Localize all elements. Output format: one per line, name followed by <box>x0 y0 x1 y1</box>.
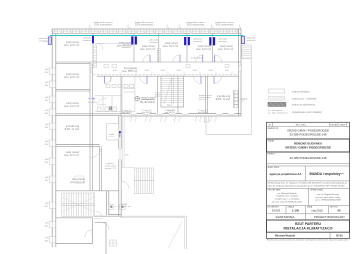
wall top exterior <box>52 29 241 33</box>
svg-text:OBIEKT: OBIEKT <box>268 153 276 155</box>
svg-text:wpis do ewidencji dzialalnosci: wpis do ewidencji dzialalnosci gospodarc… <box>268 185 345 188</box>
svg-text:UKLAD: UKLAD <box>331 123 338 126</box>
svg-text:jednostka: jednostka <box>38 37 48 40</box>
svg-text:OPRACOWAL: OPRACOWAL <box>310 189 324 192</box>
svg-text:INSTALACJA KLIMATYZACJI: INSTALACJA KLIMATYZACJI <box>284 227 333 231</box>
svg-text:IS-01: IS-01 <box>336 234 343 238</box>
svg-text:17 x 17,6: 17 x 17,6 <box>167 110 175 112</box>
svg-text:pokoj biurowy: pokoj biurowy <box>119 42 133 45</box>
room labels <box>64 41 234 208</box>
svg-text:otw. 90/210: otw. 90/210 <box>198 111 208 114</box>
svg-text:maj 2010: maj 2010 <box>311 209 323 213</box>
svg-text:URZEDU GMINY PODEGRODZIE: URZEDU GMINY PODEGRODZIE <box>285 146 331 150</box>
svg-text:jednostka: jednostka <box>218 37 228 40</box>
svg-text:pokoj: pokoj <box>66 126 80 128</box>
skylight box <box>75 176 83 183</box>
svg-text:pokoj biurowy: pokoj biurowy <box>198 45 212 48</box>
legend item 3 <box>268 102 286 106</box>
svg-text:pow. 24,5 m2: pow. 24,5 m2 <box>64 45 80 47</box>
south room notes <box>199 94 248 103</box>
drain line lavender <box>95 43 132 45</box>
wing small room box <box>107 124 119 141</box>
toilet partitions and fixtures <box>95 76 158 113</box>
fan coil pair 2 <box>184 37 186 45</box>
svg-text:poz. 2.4: poz. 2.4 <box>199 99 206 101</box>
fixtures right room <box>234 91 244 108</box>
agencja row <box>270 172 344 176</box>
corridor small marks <box>104 65 229 68</box>
fan coil pair 1 <box>131 36 133 44</box>
right wall fixture <box>239 66 242 72</box>
unit mark wing <box>119 131 121 133</box>
wing east wall window gap <box>119 149 122 161</box>
svg-text:winda: winda <box>109 134 115 136</box>
cyan pipe line <box>50 35 243 37</box>
svg-text:pow. 3 m2: pow. 3 m2 <box>122 206 132 208</box>
svg-text:projektowane sieci instalacji: projektowane sieci instalacji <box>292 111 322 114</box>
svg-text:pow. 18,2 m2: pow. 18,2 m2 <box>70 182 86 184</box>
windows bottom wall <box>130 114 235 115</box>
svg-text:SANITARNA: SANITARNA <box>276 215 295 219</box>
riser shaft mid <box>157 49 160 62</box>
stairs central <box>161 76 184 107</box>
title block frame <box>267 122 350 238</box>
svg-text:REJ. ZLEC.: REJ. ZLEC. <box>296 124 307 126</box>
svg-text:PROJEKTANT: PROJEKTANT <box>268 189 282 192</box>
svg-text:5,1 m2: 5,1 m2 <box>140 102 157 104</box>
dimension labels top <box>93 21 235 26</box>
svg-text:pow. 24,5 m2: pow. 24,5 m2 <box>218 49 234 51</box>
svg-text:otw. 90/210: otw. 90/210 <box>142 111 152 114</box>
riser shaft left <box>93 44 103 68</box>
svg-text:sala narad: sala narad <box>66 151 80 154</box>
svg-text:pokoj biurowy: pokoj biurowy <box>142 45 156 48</box>
svg-text:BIANDA i wspolnicysp.j: BIANDA i wspolnicysp.j <box>310 172 344 176</box>
svg-text:PROJEKT BUDOWLANY: PROJEKT BUDOWLANY <box>314 215 345 219</box>
svg-text:pow. 24,5 m2: pow. 24,5 m2 <box>140 49 156 51</box>
windows left wall <box>50 68 56 243</box>
vent ticks below wall <box>130 116 216 122</box>
svg-text:18 m2: 18 m2 <box>215 99 232 101</box>
svg-text:wewnetrzna: wewnetrzna <box>193 40 202 43</box>
svg-text:pokoj biurowy: pokoj biurowy <box>165 42 179 45</box>
svg-text:komunikacja: komunikacja <box>124 68 138 70</box>
svg-text:wewnetrzna: wewnetrzna <box>83 39 92 42</box>
svg-text:pow. 24,5 m2: pow. 24,5 m2 <box>64 77 80 79</box>
wing walls <box>56 116 121 254</box>
walkway dotted lines <box>122 116 134 168</box>
corridor tick marks <box>120 72 232 75</box>
svg-text:upr. proj. nuup. Nr 2345/Podk.: upr. proj. nuup. Nr 2345/Podk./2002 <box>272 200 302 203</box>
fan coil pair 3 <box>209 37 211 45</box>
fan coil unit single <box>92 36 94 43</box>
svg-text:sieci inst. sanit. wod.k. i ka: sieci inst. sanit. wod.k. i kanal. <box>315 196 341 199</box>
door arcs row1 <box>143 55 222 62</box>
svg-text:33-386 PODEGRODZIE 248: 33-386 PODEGRODZIE 248 <box>290 156 327 160</box>
terrace outline SE <box>204 116 251 134</box>
svg-text:pow. 38,2 m2: pow. 38,2 m2 <box>122 71 138 73</box>
corridor lower wall jog <box>91 146 102 191</box>
svg-text:pokoj biurowy: pokoj biurowy <box>66 102 80 105</box>
svg-text:sciany istniejace: sciany istniejace <box>292 90 310 93</box>
svg-text:wodnych, gaz. c.o. wentylacji: wodnych, gaz. c.o. wentylacji <box>275 198 300 201</box>
wall bottom of main block <box>121 114 241 116</box>
legend item 4 <box>267 109 322 114</box>
svg-text:TEMAT: TEMAT <box>268 139 275 142</box>
svg-text:pow. 24,5 m2: pow. 24,5 m2 <box>196 49 212 51</box>
svg-text:33-386 PODEGRODZIE 248: 33-386 PODEGRODZIE 248 <box>290 132 327 136</box>
svg-text:d.90: d.90 <box>193 70 197 72</box>
svg-text:mgr inz. Zbigniew Baranty: mgr inz. Zbigniew Baranty <box>317 193 339 196</box>
outdoor unit left (outlined) <box>48 37 51 45</box>
svg-text:1,5 x 13,5: 1,5 x 13,5 <box>88 102 98 104</box>
indoor unit right (outlined) <box>242 36 245 43</box>
door arcs corridor south <box>140 76 222 83</box>
svg-text:d.90: d.90 <box>177 70 181 72</box>
svg-text:klatka schodowa: klatka schodowa <box>72 178 86 181</box>
svg-text:1:100: 1:100 <box>292 209 300 213</box>
wall right exterior <box>239 29 241 116</box>
stairs SE external <box>134 168 153 194</box>
south walk line <box>121 216 186 249</box>
svg-text:sciany proj. - rozbiorka: sciany proj. - rozbiorka <box>292 98 317 101</box>
svg-text:jednostka: jednostka <box>82 37 92 40</box>
svg-text:pow. 24,5 m2: pow. 24,5 m2 <box>163 46 179 48</box>
svg-text:Miroslaw Wojnicki: Miroslaw Wojnicki <box>275 233 295 237</box>
wall left exterior <box>52 29 56 247</box>
window labels left <box>45 69 50 242</box>
svg-text:pow. 24,5 m2: pow. 24,5 m2 <box>64 106 80 108</box>
unit labels <box>38 37 256 50</box>
svg-text:do pom. 1.12: do pom. 1.12 <box>105 168 116 170</box>
interior walls row1 partitions <box>56 34 241 191</box>
svg-text:d.90: d.90 <box>161 70 165 72</box>
svg-text:Projektant sieci i instalacji: Projektant sieci i instalacji <box>276 195 298 198</box>
svg-text:1.05 pokoj: 1.05 pokoj <box>191 58 204 60</box>
svg-text:jednostka: jednostka <box>149 39 159 42</box>
svg-text:wewnetrzna: wewnetrzna <box>219 40 228 43</box>
svg-text:c.o.: c.o. <box>241 101 245 103</box>
stairs NE external <box>241 45 252 134</box>
svg-text:wewnetrzna: wewnetrzna <box>150 41 159 44</box>
svg-text:d.90: d.90 <box>145 70 149 72</box>
svg-text:16 m2: 16 m2 <box>64 129 81 131</box>
svg-text:pokoj: pokoj <box>217 96 231 98</box>
title block bold boxes <box>267 139 350 152</box>
svg-text:Wszelkie prawa autorskie zastr: Wszelkie prawa autorskie zastrzezone - k… <box>267 239 348 242</box>
stairs SW main <box>62 193 95 217</box>
wing doors <box>85 181 129 246</box>
svg-text:d.90: d.90 <box>113 70 117 72</box>
svg-text:wewnetrzna: wewnetrzna <box>39 39 48 42</box>
svg-text:bieg 1: bieg 1 <box>167 105 172 107</box>
svg-text:d.90: d.90 <box>225 70 229 72</box>
svg-text:00: 00 <box>337 209 341 213</box>
svg-text:upr. nr GPNS-AGNIDA 1/1998: upr. nr GPNS-AGNIDA 1/1998 <box>315 199 340 202</box>
svg-text:sciany do wyburzenia: sciany do wyburzenia <box>292 104 316 107</box>
partition fixtures <box>156 93 160 95</box>
legend item 1 <box>268 89 285 93</box>
svg-text:pokoj biurowy: pokoj biurowy <box>66 73 80 76</box>
svg-text:33-300 Nowy Sacz ul. Dlugosza: 33-300 Nowy Sacz ul. Dlugosza 73 tel/fax… <box>268 182 348 185</box>
lavender pipe segment <box>88 98 94 100</box>
svg-text:agencja projektowa AA: agencja projektowa AA <box>270 172 303 176</box>
svg-text:inz. Wieslaw Bielawski: inz. Wieslaw Bielawski <box>278 193 297 195</box>
corridor dashed line <box>93 74 238 76</box>
svg-text:JEDN. PROJ.: JEDN. PROJ. <box>268 167 281 169</box>
svg-text:jednostka: jednostka <box>192 37 202 40</box>
svg-text:pow. 24,5 m2: pow. 24,5 m2 <box>117 45 133 47</box>
column symbol <box>135 96 140 101</box>
svg-text:wewnetrzna: wewnetrzna <box>247 39 256 42</box>
svg-text:24.003: 24.003 <box>272 209 281 213</box>
fine print rows <box>268 182 348 204</box>
title block text <box>268 123 346 208</box>
svg-text:pow. 32,2 m2: pow. 32,2 m2 <box>64 155 80 157</box>
legend item 2 <box>268 96 285 100</box>
door mark dark <box>108 106 111 110</box>
svg-text:INWESTOR: INWESTOR <box>268 128 279 130</box>
svg-text:DATA: DATA <box>340 123 346 126</box>
svg-text:jednostka: jednostka <box>246 37 256 40</box>
svg-text:pokoj biurowy: pokoj biurowy <box>66 41 80 44</box>
svg-text:jw. - jedn. wewnetrzna: jw. - jedn. wewnetrzna <box>267 111 289 114</box>
labels above bottom wall <box>122 110 208 114</box>
svg-text:d.90: d.90 <box>209 70 213 72</box>
svg-text:pokoj biurowy: pokoj biurowy <box>220 45 234 48</box>
